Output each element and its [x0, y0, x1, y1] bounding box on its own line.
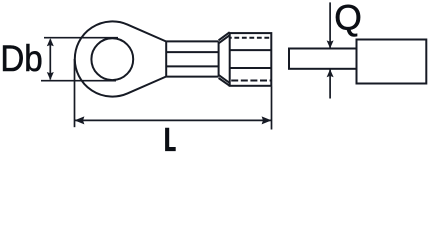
- svg-text:Db: Db: [0, 38, 42, 79]
- svg-text:Q: Q: [334, 0, 362, 37]
